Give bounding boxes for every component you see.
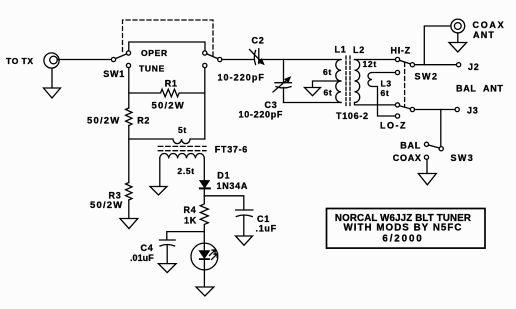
switch SW2 lower pole — [395, 103, 414, 118]
wire R3 to ground — [128, 200, 130, 218]
wire 2.5t right to D1 — [203, 158, 205, 181]
svg-text:6t: 6t — [324, 88, 333, 98]
svg-text:C1: C1 — [257, 214, 270, 224]
wire R2 to lower rail and R3 — [128, 126, 130, 183]
svg-text:R4: R4 — [184, 205, 197, 215]
capacitor C3 (variable, shunt) — [273, 60, 292, 103]
wire SW1 left TUNE down to R2 — [128, 68, 130, 108]
wire SW1 right TUNE down — [204, 68, 206, 139]
svg-text:C2: C2 — [252, 35, 265, 45]
svg-text:J3: J3 — [467, 106, 478, 116]
svg-text:6/2000: 6/2000 — [382, 233, 423, 244]
svg-text:BAL: BAL — [400, 141, 421, 151]
svg-text:SW3: SW3 — [451, 153, 475, 163]
svg-text:BAL ANT: BAL ANT — [456, 84, 504, 94]
resistor R2 — [126, 108, 132, 126]
svg-text:12t: 12t — [363, 59, 377, 69]
connector COAX ANT — [451, 19, 465, 33]
wire C2 to L1 top (node A) — [260, 59, 341, 61]
winding L3 (6t link) with wires to SW2 — [368, 73, 395, 117]
resistor R1 (with wires) — [129, 89, 205, 97]
diode D1 — [200, 181, 210, 189]
svg-text:SW1: SW1 — [103, 69, 125, 79]
wire J1 to SW1 common — [57, 59, 111, 61]
svg-text:10-220pF: 10-220pF — [239, 110, 284, 120]
wire J3 node to SW3 common — [440, 110, 442, 147]
jack J2 — [457, 63, 461, 67]
ground (below J1) — [44, 68, 61, 98]
wire 2.5t left to ground — [159, 158, 161, 186]
svg-text:FT37-6: FT37-6 — [215, 145, 248, 155]
wire D1 to node B — [203, 188, 205, 196]
svg-text:ANT: ANT — [473, 30, 495, 40]
svg-text:C3: C3 — [265, 100, 278, 110]
transformer T2 core (dashed) — [158, 146, 206, 150]
switch SW1 right pole — [203, 51, 222, 68]
ground (COAX ANT) — [449, 33, 467, 52]
svg-text:50/2W: 50/2W — [152, 101, 185, 112]
svg-text:50/2W: 50/2W — [90, 200, 123, 211]
wire SW2 to J2 — [415, 64, 457, 66]
svg-text:2.5t: 2.5t — [177, 166, 194, 176]
transformer T1 winding L2 — [355, 60, 360, 103]
title box — [327, 209, 486, 249]
svg-text:COAX: COAX — [473, 20, 506, 30]
mechanical link SW1 gang (dashed) — [123, 20, 214, 56]
transformer T1 core — [346, 56, 350, 106]
svg-text:SW2: SW2 — [415, 72, 439, 82]
L1 center tap to ground — [313, 81, 342, 87]
ground (SW3 COAX position) — [418, 160, 436, 185]
ground (L1 center tap) — [305, 88, 321, 96]
svg-text:C4: C4 — [141, 243, 154, 253]
wire L2 bottom to SW2 contact — [355, 103, 396, 105]
capacitor C1 — [236, 210, 253, 236]
svg-text:COAX: COAX — [393, 153, 422, 163]
ground (C1) — [236, 236, 253, 245]
svg-text:R2: R2 — [137, 116, 150, 126]
wire node B to C1 — [204, 196, 244, 210]
svg-text:LO-Z: LO-Z — [380, 121, 407, 131]
svg-text:TO: TO — [6, 56, 19, 66]
ground (2.5t left) — [150, 187, 167, 195]
connector J1 (TO TX coax jack) — [44, 53, 59, 68]
svg-text:5t: 5t — [178, 125, 187, 135]
mechanical link SW2 (dashed) — [404, 63, 406, 108]
svg-text:.1uF: .1uF — [256, 224, 277, 234]
wire node C to C4 — [167, 232, 205, 240]
svg-text:OPER: OPER — [141, 48, 168, 58]
svg-text:L2: L2 — [353, 45, 365, 55]
svg-text:L1: L1 — [335, 45, 347, 55]
svg-text:TX: TX — [22, 56, 34, 66]
svg-text:50/2W: 50/2W — [87, 116, 120, 127]
switch SW2 upper pole — [395, 57, 414, 74]
svg-text:1K: 1K — [184, 215, 197, 225]
svg-text:.01uF: .01uF — [130, 253, 154, 263]
resistor R3 — [126, 183, 132, 201]
svg-text:WITH MODS BY N5FC: WITH MODS BY N5FC — [344, 222, 463, 233]
svg-text:HI-Z: HI-Z — [391, 46, 411, 56]
svg-text:R1: R1 — [165, 78, 178, 88]
wire OPER link (SW1 upper path) — [129, 42, 205, 51]
svg-text:TUNE: TUNE — [139, 64, 165, 74]
transformer T2 secondary 2.5t — [160, 153, 204, 158]
ground (R3) — [120, 219, 138, 229]
svg-text:R3: R3 — [109, 191, 122, 201]
svg-text:T106-2: T106-2 — [336, 111, 369, 121]
svg-text:L3: L3 — [381, 79, 392, 89]
switch SW3 — [424, 142, 443, 159]
wire to COAX ANT connector — [424, 26, 450, 65]
wire C3 to L1 bottom — [284, 102, 342, 104]
LED D2 — [191, 243, 218, 270]
transformer T1 winding L1 — [336, 60, 341, 103]
wire SW1 to C2 — [222, 59, 253, 61]
wire L2 top to SW2 HI-Z contact — [355, 59, 396, 61]
svg-text:6t: 6t — [381, 88, 390, 98]
capacitor C2 (variable, series) — [250, 49, 265, 65]
switch SW1 left pole — [111, 51, 130, 68]
resistor R4 — [200, 196, 208, 243]
capacitor C4 — [160, 240, 176, 263]
ground (C4) — [158, 264, 176, 273]
svg-text:6t: 6t — [323, 67, 332, 77]
svg-text:10-220pF: 10-220pF — [218, 73, 265, 83]
jack J3 — [455, 107, 459, 111]
wire LED to ground — [203, 270, 205, 287]
svg-text:D1: D1 — [217, 170, 230, 180]
svg-text:1N34A: 1N34A — [217, 181, 249, 191]
transformer T2 primary 5t (in lower rail) — [129, 139, 205, 144]
ground (LED) — [196, 287, 214, 296]
wire SW2 to J3 — [415, 109, 455, 111]
svg-text:J2: J2 — [468, 62, 479, 72]
